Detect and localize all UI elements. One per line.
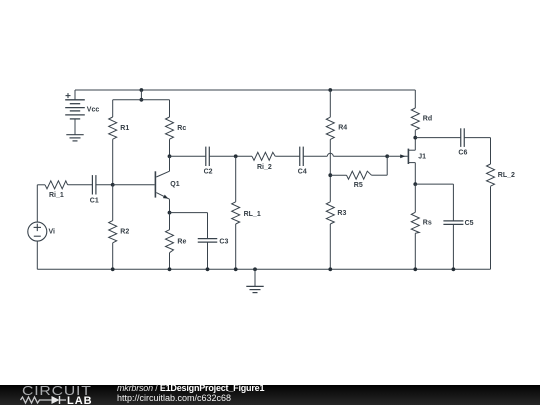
wire hop to gate junction xyxy=(333,155,387,157)
wire Vi top xyxy=(36,185,38,222)
ground main xyxy=(246,285,263,287)
wire Rs top xyxy=(414,184,416,212)
transistor J1 xyxy=(407,149,409,164)
svg-text:Vcc: Vcc xyxy=(87,106,100,113)
node R5 junction xyxy=(328,173,332,177)
logo resistor-diode motif xyxy=(0,385,90,405)
footer url line xyxy=(117,393,231,403)
wire RL_2 bottom xyxy=(490,186,492,269)
resistor R3 xyxy=(326,202,334,224)
wire Rd bottom xyxy=(414,130,416,137)
node supply junction at R4 xyxy=(328,88,332,92)
wire R2 top xyxy=(112,185,114,221)
ground under battery xyxy=(66,134,83,136)
resistor R5 xyxy=(347,171,372,179)
svg-text:J1: J1 xyxy=(418,154,426,161)
svg-text:Q1: Q1 xyxy=(170,181,179,188)
wire top rail corner to Rd xyxy=(414,90,416,108)
wire source to C5 xyxy=(415,183,453,185)
svg-text:C2: C2 xyxy=(204,169,213,176)
wire C4 to hop xyxy=(303,155,327,157)
wire C2 to Ri_2 xyxy=(209,155,252,157)
wire emitter to C3 xyxy=(170,212,208,214)
node R3 ground junction xyxy=(328,267,332,271)
resistor RL_2 xyxy=(487,164,495,186)
wire ground stub xyxy=(254,269,256,286)
node supply junction at riser xyxy=(140,88,144,92)
wire RL_1 top xyxy=(235,156,237,202)
wire Vi bottom xyxy=(36,241,38,269)
svg-text:RL_2: RL_2 xyxy=(498,172,515,179)
svg-text:C1: C1 xyxy=(90,198,99,205)
node emitter junction xyxy=(168,211,172,215)
resistor R1 xyxy=(109,117,117,139)
svg-text:Vi: Vi xyxy=(49,229,56,236)
node RL_1 junction xyxy=(234,154,238,158)
node R1/Rc rail junction xyxy=(140,98,144,102)
wire C1 to base node xyxy=(96,184,113,186)
wire R5 right xyxy=(372,174,388,176)
battery Vcc xyxy=(74,90,76,100)
svg-text:R2: R2 xyxy=(120,229,129,236)
node base junction xyxy=(111,183,115,187)
node R2 ground junction xyxy=(111,267,115,271)
svg-text:R1: R1 xyxy=(120,125,129,132)
svg-text:R3: R3 xyxy=(337,210,346,217)
footer title line xyxy=(117,383,264,393)
resistor R4 xyxy=(326,117,334,139)
svg-text:RL_1: RL_1 xyxy=(244,211,261,218)
node gate junction xyxy=(385,154,389,158)
node Rs ground junction xyxy=(413,267,417,271)
node C3 ground junction xyxy=(206,267,210,271)
svg-text:Re: Re xyxy=(177,238,186,245)
wire Re top xyxy=(169,213,171,230)
wire R5 left xyxy=(330,174,346,176)
wire R1/Rc rail xyxy=(113,99,170,101)
wire Ri_1 to C1 xyxy=(68,184,93,186)
logo CIRCUIT xyxy=(22,383,92,398)
node drain junction xyxy=(413,136,417,140)
wire C6 to RL_2 xyxy=(464,137,490,139)
logo LAB xyxy=(67,395,93,407)
wire C3 top xyxy=(207,213,209,239)
wire Ri_2 to C4 xyxy=(275,155,300,157)
resistor Rs xyxy=(411,212,419,233)
wire R4 top xyxy=(329,90,331,117)
wire hop over R3 column xyxy=(327,153,333,156)
capacitor C1 xyxy=(91,175,93,194)
wire collector to C2 xyxy=(170,155,206,157)
wire Rc bottom xyxy=(169,139,171,156)
source Vi xyxy=(28,222,47,241)
node Re ground junction xyxy=(168,267,172,271)
node source junction xyxy=(413,182,417,186)
svg-text:Ri_2: Ri_2 xyxy=(257,164,272,171)
resistor Ri_1 xyxy=(45,181,68,189)
svg-text:Rc: Rc xyxy=(177,125,186,132)
wire riser to R1/Rc rail xyxy=(140,90,142,100)
capacitor C2 xyxy=(205,147,207,166)
resistor R2 xyxy=(109,221,117,243)
wire R4 to R5 node xyxy=(329,139,331,201)
wire top supply rail xyxy=(75,89,415,91)
wire bottom rail xyxy=(37,268,490,270)
wire Rs bottom xyxy=(414,233,416,269)
wire R1 bottom to base node xyxy=(112,139,114,185)
capacitor C5 xyxy=(443,220,463,222)
svg-text:Ri_1: Ri_1 xyxy=(49,192,64,199)
svg-text:Rs: Rs xyxy=(423,219,432,226)
svg-text:C5: C5 xyxy=(465,220,474,227)
svg-text:R4: R4 xyxy=(338,125,347,132)
capacitor C4 xyxy=(299,147,301,166)
transistor Q1 xyxy=(154,171,156,197)
svg-text:R5: R5 xyxy=(354,182,363,189)
node ground stub junction xyxy=(253,267,257,271)
wire Re bottom xyxy=(169,253,171,270)
wire R3 bottom xyxy=(329,224,331,269)
resistor Ri_2 xyxy=(252,152,275,160)
wire gate junction to J1 xyxy=(387,155,407,157)
node collector junction xyxy=(168,154,172,158)
svg-text:C3: C3 xyxy=(219,239,228,246)
wire R2 bottom xyxy=(112,243,114,269)
wire R1 top xyxy=(112,100,114,117)
node RL_1 ground junction xyxy=(234,267,238,271)
wire C5 bottom xyxy=(452,224,454,269)
resistor Rc xyxy=(166,117,174,139)
svg-text:C4: C4 xyxy=(298,169,307,176)
resistor Re xyxy=(166,230,174,253)
wire C3 bottom xyxy=(207,242,209,269)
node C5 ground junction xyxy=(452,267,456,271)
svg-text:C6: C6 xyxy=(458,149,467,156)
wire base node to Q1 xyxy=(113,184,155,186)
wire drain to C6 xyxy=(415,137,461,139)
wire RL_1 bottom xyxy=(235,224,237,269)
wire Rc top xyxy=(169,100,171,117)
capacitor C6 xyxy=(460,128,462,147)
capacitor C3 xyxy=(198,238,218,240)
svg-text:Rd: Rd xyxy=(423,116,432,123)
resistor Rd xyxy=(411,108,419,130)
resistor RL_1 xyxy=(232,202,240,224)
